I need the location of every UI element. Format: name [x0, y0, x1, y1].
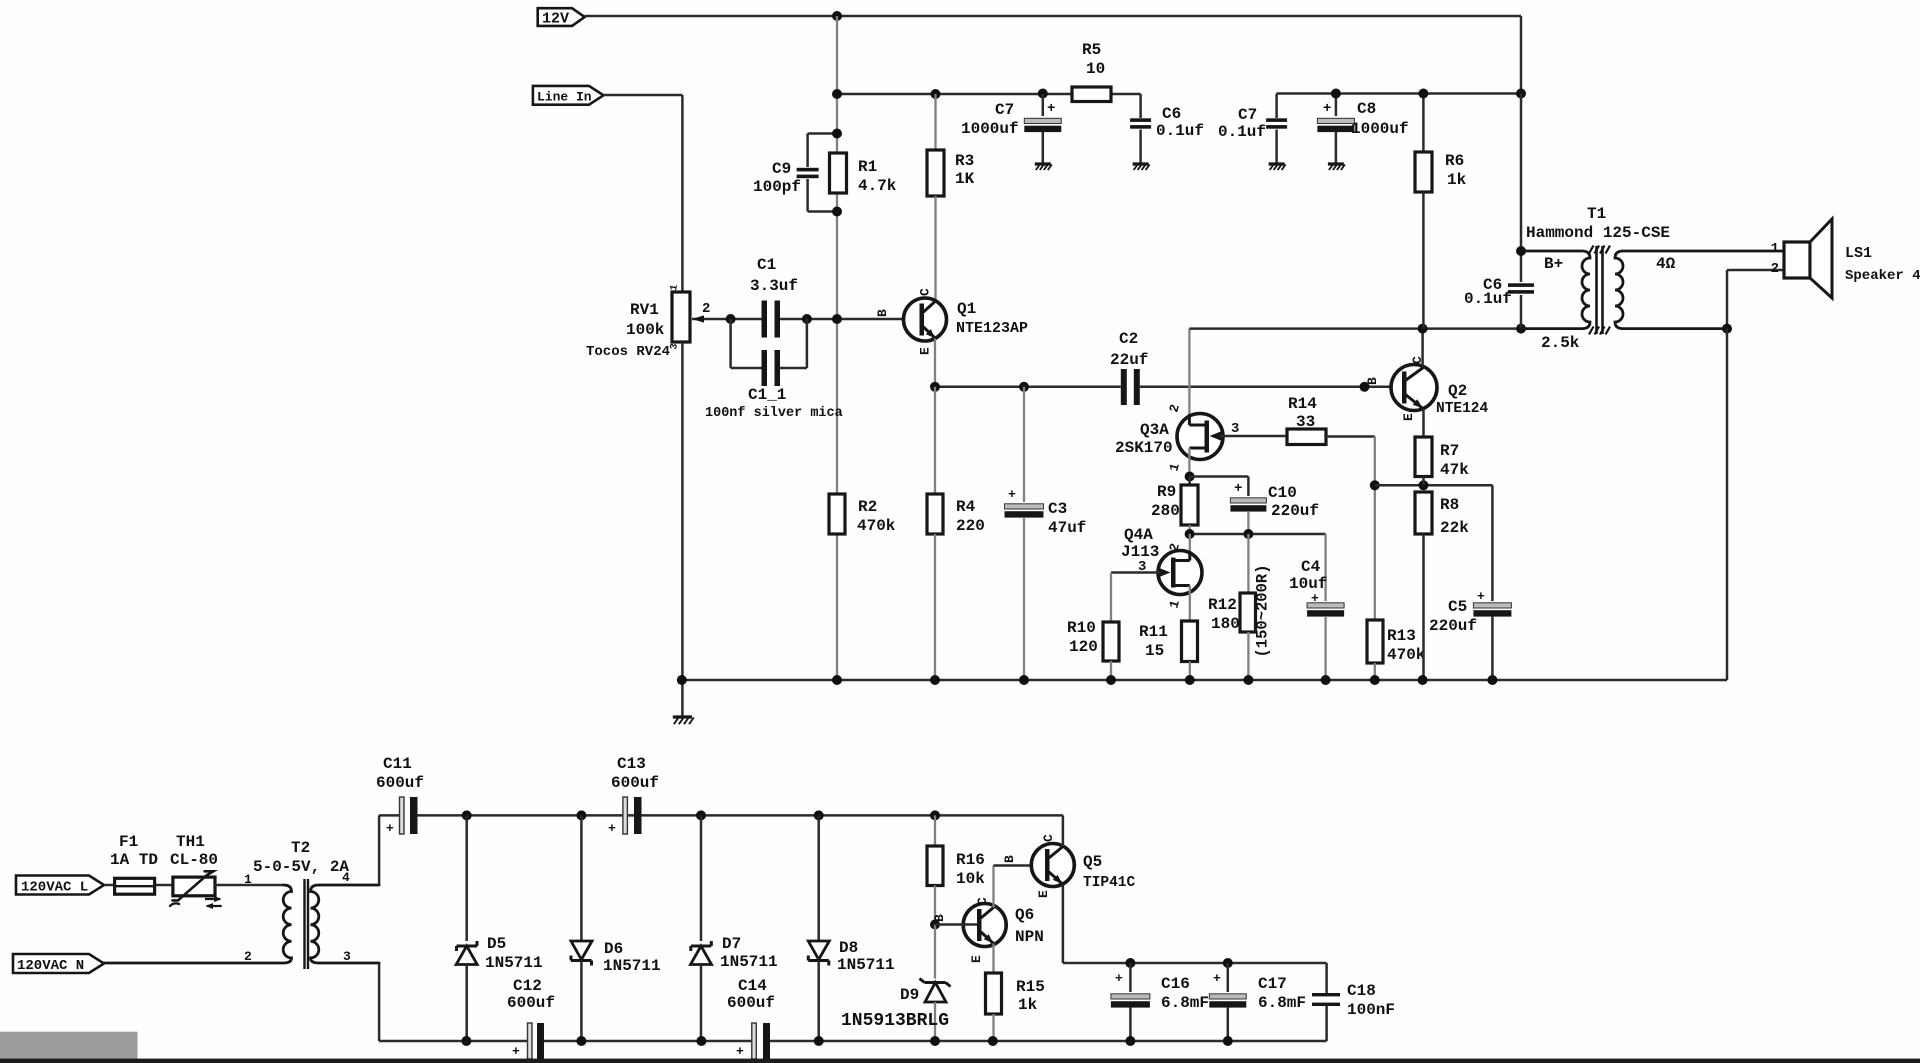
- svg-text:R6: R6: [1445, 152, 1464, 170]
- wire RV1 to ground rail: [681, 342, 684, 716]
- svg-text:4Ω: 4Ω: [1656, 255, 1676, 273]
- node emitter/R4: [930, 382, 940, 392]
- node R3 top junction: [931, 89, 941, 99]
- svg-text:100nF: 100nF: [1347, 1001, 1395, 1019]
- resistor R9 280: [1188, 477, 1191, 486]
- node rail R13: [1370, 675, 1380, 685]
- transistor Q6 NPN: [963, 904, 1006, 947]
- node C9 top: [832, 129, 842, 139]
- svg-text:1: 1: [1771, 241, 1779, 257]
- svg-text:E: E: [1401, 413, 1416, 421]
- capacitor C13 600uf: [623, 797, 628, 834]
- node D9 bottom: [930, 1036, 940, 1046]
- resistor R15 1k: [992, 944, 994, 974]
- svg-text:+: +: [608, 821, 616, 836]
- svg-text:1k: 1k: [1447, 171, 1467, 189]
- node C9 bottom: [832, 207, 842, 217]
- svg-text:D7: D7: [722, 935, 741, 953]
- svg-text:C1: C1: [757, 256, 776, 274]
- svg-text:R4: R4: [956, 498, 976, 516]
- node Q3A source: [1185, 472, 1195, 482]
- svg-text:D6: D6: [604, 940, 623, 958]
- wire right drop to ground rail: [1726, 329, 1729, 680]
- svg-text:12V: 12V: [542, 11, 569, 28]
- node bias bus junction: [1370, 480, 1380, 490]
- node C7 top junction: [1038, 89, 1048, 99]
- svg-text:F1: F1: [119, 833, 138, 851]
- svg-text:C4: C4: [1301, 558, 1321, 576]
- svg-text:+: +: [736, 1044, 744, 1059]
- transformer T1 core: [1595, 246, 1598, 334]
- svg-text:100pf: 100pf: [753, 178, 801, 196]
- capacitor C14 600uf: [752, 1023, 757, 1059]
- svg-text:Q3A: Q3A: [1140, 421, 1169, 439]
- svg-text:+: +: [1115, 971, 1123, 986]
- svg-text:R13: R13: [1387, 627, 1416, 645]
- node rail C5: [1487, 675, 1497, 685]
- capacitor C6 0.1uf (left): [1139, 94, 1142, 118]
- svg-text:1N5711: 1N5711: [485, 954, 543, 972]
- svg-text:C13: C13: [617, 755, 646, 773]
- svg-text:J113: J113: [1121, 543, 1159, 561]
- node D5 top: [462, 810, 472, 820]
- svg-text:1000uf: 1000uf: [1351, 120, 1409, 138]
- svg-text:T2: T2: [291, 839, 310, 857]
- wire Q5 emitter output: [1062, 885, 1065, 964]
- svg-text:C1_1: C1_1: [748, 386, 786, 404]
- resistor R2 470k: [829, 494, 845, 534]
- svg-text:1N5711: 1N5711: [837, 956, 895, 974]
- svg-text:Hammond 125-CSE: Hammond 125-CSE: [1526, 224, 1670, 242]
- svg-text:+: +: [1477, 589, 1485, 604]
- node C1 right: [802, 314, 812, 324]
- resistor R13 470k: [1367, 620, 1383, 663]
- svg-text:15: 15: [1145, 642, 1164, 660]
- node rail R10: [1106, 675, 1116, 685]
- resistor R6 1k: [1422, 94, 1425, 153]
- svg-text:4: 4: [342, 870, 350, 885]
- svg-text:C18: C18: [1347, 982, 1376, 1000]
- svg-text:470k: 470k: [1387, 646, 1426, 664]
- svg-text:NPN: NPN: [1015, 928, 1044, 946]
- svg-text:10uf: 10uf: [1289, 575, 1327, 593]
- node C16 bottom: [1125, 1036, 1135, 1046]
- svg-text:R10: R10: [1067, 619, 1096, 637]
- svg-text:+: +: [1213, 971, 1221, 986]
- wire rail y=94 left segment: [837, 93, 1072, 96]
- capacitor C8 1000uf: [1335, 94, 1338, 117]
- capacitor C7 0.1uf (second): [1275, 94, 1278, 119]
- capacitor C6 0.1uf (output): [1508, 283, 1534, 287]
- resistor R4 220: [934, 387, 936, 494]
- node D7 bottom: [696, 1036, 706, 1046]
- transformer T2 core: [303, 879, 305, 969]
- svg-text:B: B: [875, 309, 890, 317]
- transistor Q1 NTE123AP: [904, 298, 947, 341]
- svg-text:C17: C17: [1258, 975, 1287, 993]
- node D7 top: [696, 810, 706, 820]
- diode D8 1N5711: [817, 815, 820, 941]
- svg-text:C: C: [1041, 834, 1056, 842]
- svg-text:R8: R8: [1440, 496, 1459, 514]
- wire feedback rail y=329: [1189, 327, 1521, 330]
- wire T2 pin4 riser: [378, 815, 381, 885]
- transformer T2 primary winding: [104, 885, 292, 963]
- svg-text:+: +: [1047, 101, 1055, 117]
- svg-text:B: B: [932, 914, 947, 922]
- svg-text:5-0-5V, 2A: 5-0-5V, 2A: [253, 858, 349, 876]
- svg-text:Q6: Q6: [1015, 906, 1034, 924]
- zener diode D9 1N5913BRLG: [934, 925, 936, 979]
- svg-text:47uf: 47uf: [1048, 519, 1086, 537]
- svg-text:B: B: [1002, 855, 1017, 863]
- node C17 top: [1223, 958, 1233, 968]
- capacitor C7 1000uf: [1042, 94, 1045, 116]
- capacitor C5 220uf: [1491, 485, 1494, 601]
- svg-text:600uf: 600uf: [376, 774, 424, 792]
- ground under C6: [1133, 162, 1149, 165]
- flag 120VAC L: [16, 876, 104, 895]
- node D5 bottom: [461, 1036, 471, 1046]
- svg-text:120VAC L: 120VAC L: [21, 880, 88, 896]
- svg-text:D5: D5: [487, 935, 506, 953]
- svg-text:C: C: [1410, 356, 1425, 364]
- svg-text:TH1: TH1: [176, 833, 205, 851]
- svg-text:R5: R5: [1082, 41, 1101, 59]
- wire vertical bus x=837: [836, 16, 838, 680]
- svg-text:22uf: 22uf: [1110, 351, 1148, 369]
- node D6 bottom: [576, 1036, 586, 1046]
- resistor R1 4.7k: [830, 153, 847, 193]
- wire ground rail y=680: [682, 679, 1493, 682]
- svg-text:E: E: [969, 955, 984, 963]
- node C16 top: [1125, 958, 1135, 968]
- node C10/R12: [1243, 529, 1253, 539]
- svg-text:Q2: Q2: [1448, 382, 1467, 400]
- power flag 12V: [538, 8, 585, 26]
- capacitor C1 3.3uf: [762, 301, 768, 338]
- node D6 top: [576, 810, 586, 820]
- wire PSU bottom rail: [379, 1040, 527, 1043]
- svg-text:B+: B+: [1544, 255, 1563, 273]
- svg-text:2SK170: 2SK170: [1115, 439, 1173, 457]
- svg-text:3: 3: [1138, 559, 1146, 575]
- node base/bus crossing: [832, 314, 842, 324]
- svg-text:D8: D8: [839, 939, 858, 957]
- svg-text:1: 1: [244, 872, 252, 887]
- node rail corner: [1516, 89, 1526, 99]
- svg-text:R14: R14: [1288, 395, 1317, 413]
- node R15 bottom: [988, 1036, 998, 1046]
- resistor R11 15: [1182, 621, 1198, 662]
- svg-text:C7: C7: [995, 101, 1014, 119]
- svg-text:10k: 10k: [956, 870, 985, 888]
- node speaker return junction: [1722, 324, 1732, 334]
- svg-text:R2: R2: [858, 498, 877, 516]
- node B+ junction: [1516, 246, 1526, 256]
- flag 120VAC N: [13, 954, 104, 973]
- transistor Q5 TIP41C: [1031, 844, 1074, 887]
- svg-text:3: 3: [1231, 421, 1239, 437]
- svg-text:C: C: [918, 288, 933, 296]
- node C1 left: [726, 314, 736, 324]
- svg-text:CL-80: CL-80: [170, 851, 218, 869]
- capacitor C11 600uf: [400, 797, 405, 834]
- fuse F1 1A TD: [104, 884, 173, 887]
- svg-text:+: +: [1311, 591, 1319, 606]
- svg-text:47k: 47k: [1440, 461, 1469, 479]
- transformer T1 secondary winding: [1615, 251, 1784, 329]
- svg-text:C7: C7: [1238, 106, 1257, 124]
- node R7/R8 junction: [1419, 480, 1429, 490]
- svg-text:T1: T1: [1587, 205, 1606, 223]
- transformer T2 secondary winding: [311, 885, 380, 963]
- svg-text:+: +: [512, 1044, 520, 1059]
- svg-text:TIP41C: TIP41C: [1083, 875, 1136, 891]
- capacitor C16 6.8mF: [1129, 963, 1132, 992]
- svg-text:Tocos RV24: Tocos RV24: [586, 344, 670, 360]
- svg-text:C9: C9: [772, 160, 791, 178]
- svg-text:10: 10: [1086, 60, 1105, 78]
- svg-text:220uf: 220uf: [1271, 502, 1319, 520]
- capacitor C2 22uf: [1121, 369, 1127, 405]
- svg-text:100k: 100k: [626, 321, 665, 339]
- svg-text:C16: C16: [1161, 975, 1190, 993]
- capacitor C10 220uf: [1190, 475, 1249, 478]
- svg-text:NTE124: NTE124: [1436, 401, 1489, 417]
- flag Line In: [533, 86, 604, 105]
- wire 12V rail drop right: [1520, 16, 1523, 94]
- svg-text:E: E: [1036, 890, 1051, 898]
- thermistor TH1 CL-80: [173, 877, 215, 896]
- svg-text:Line In: Line In: [537, 90, 592, 105]
- resistor R16 10k: [934, 815, 936, 846]
- svg-text:1N5711: 1N5711: [603, 957, 661, 975]
- svg-text:1N5711: 1N5711: [720, 953, 778, 971]
- diode D7 1N5711: [700, 815, 703, 941]
- node R9/Q4A drain: [1185, 529, 1195, 539]
- resistor R3 1K: [934, 94, 936, 150]
- node D8 bottom: [814, 1036, 824, 1046]
- svg-text:600uf: 600uf: [611, 774, 659, 792]
- svg-text:220: 220: [956, 517, 985, 535]
- capacitor C9 100pf parallel branch: [808, 132, 837, 135]
- node rail C3: [1019, 675, 1029, 685]
- svg-text:R12: R12: [1208, 596, 1237, 614]
- capacitor C12 600uf: [528, 1023, 533, 1059]
- svg-text:4.7k: 4.7k: [858, 177, 897, 195]
- node rail/bus junction: [832, 89, 842, 99]
- wire Q1 emitter node: [934, 339, 936, 387]
- svg-text:R15: R15: [1016, 978, 1045, 996]
- svg-text:280: 280: [1151, 502, 1180, 520]
- svg-text:1k: 1k: [1018, 996, 1038, 1014]
- resistor R8 22k: [1415, 492, 1432, 534]
- node D8 top: [814, 810, 824, 820]
- node Q2 collector/R6: [1418, 324, 1428, 334]
- node Q6 base junction: [930, 920, 940, 930]
- svg-text:120: 120: [1069, 638, 1098, 656]
- svg-text:0.1uf: 0.1uf: [1156, 122, 1204, 140]
- svg-text:C2: C2: [1119, 330, 1138, 348]
- potentiometer RV1 100k: [672, 292, 690, 342]
- wire 12V rail: [585, 15, 1521, 18]
- node C17 bottom: [1223, 1036, 1233, 1046]
- svg-text:1K: 1K: [955, 170, 975, 188]
- svg-text:C10: C10: [1268, 484, 1297, 502]
- wire node y=534: [1190, 533, 1326, 536]
- svg-text:1N5913BRLG: 1N5913BRLG: [841, 1011, 949, 1031]
- node R16 top: [930, 810, 940, 820]
- svg-text:(150~200R): (150~200R): [1254, 564, 1272, 657]
- ground under C8: [1328, 162, 1344, 165]
- svg-text:180: 180: [1211, 615, 1240, 633]
- svg-text:220uf: 220uf: [1429, 617, 1477, 635]
- resistor R14 33: [1287, 429, 1326, 445]
- wire speaker return: [1727, 269, 1784, 272]
- node primary bottom: [1516, 324, 1526, 334]
- svg-text:33: 33: [1296, 413, 1315, 431]
- node Q2 base wire: [1360, 382, 1370, 392]
- svg-text:C11: C11: [383, 755, 412, 773]
- speaker LS1: [1784, 242, 1810, 278]
- svg-text:R3: R3: [955, 152, 974, 170]
- ground main: [673, 715, 692, 718]
- wire B+ vertical x=1521: [1520, 94, 1523, 283]
- JFET Q4A J113: [1189, 534, 1191, 561]
- wire R14 to R13 bus: [1326, 435, 1375, 438]
- wire T2 pin3 drop: [378, 963, 381, 1041]
- wire base node: [731, 318, 762, 321]
- node rail C4: [1321, 675, 1331, 685]
- node rail R4: [930, 675, 940, 685]
- ground under C7 second: [1269, 162, 1285, 165]
- svg-text:1A TD: 1A TD: [110, 851, 158, 869]
- node C3 top: [1019, 382, 1029, 392]
- svg-text:C3: C3: [1048, 500, 1067, 518]
- svg-text:Speaker 4Ω: Speaker 4Ω: [1845, 268, 1920, 284]
- node R6 top: [1418, 89, 1428, 99]
- svg-text:22k: 22k: [1440, 519, 1469, 537]
- ground under C7: [1035, 162, 1051, 165]
- svg-text:3.3uf: 3.3uf: [750, 277, 798, 295]
- svg-text:100nf silver mica: 100nf silver mica: [705, 406, 843, 421]
- svg-text:C: C: [975, 897, 990, 905]
- capacitor C3 47uf: [1023, 387, 1025, 502]
- svg-text:RV1: RV1: [630, 301, 659, 319]
- node 12V/R1 junction: [832, 11, 842, 21]
- svg-text:6.8mF: 6.8mF: [1258, 994, 1306, 1012]
- resistor R12 180: [1247, 534, 1249, 593]
- capacitor C17 6.8mF: [1227, 963, 1230, 992]
- wire rail y=94 right segment: [1277, 92, 1521, 95]
- svg-text:120VAC N: 120VAC N: [17, 958, 84, 974]
- svg-text:LS1: LS1: [1845, 245, 1872, 262]
- svg-text:C6: C6: [1162, 105, 1181, 123]
- node rail R11: [1185, 675, 1195, 685]
- svg-text:+: +: [386, 821, 394, 836]
- svg-text:600uf: 600uf: [507, 994, 555, 1012]
- svg-text:C8: C8: [1357, 100, 1376, 118]
- svg-text:0.1uf: 0.1uf: [1218, 123, 1266, 141]
- svg-text:+: +: [1234, 481, 1242, 497]
- svg-text:+: +: [1323, 101, 1331, 117]
- resistor R7 47k: [1422, 409, 1425, 437]
- JFET Q3A 2SK170: [1188, 329, 1190, 424]
- svg-text:R16: R16: [956, 851, 985, 869]
- capacitor C1_1 100nf silver mica parallel branch: [729, 319, 732, 368]
- svg-text:R9: R9: [1157, 483, 1176, 501]
- wire TH1 to T2: [215, 884, 284, 887]
- svg-text:Q1: Q1: [957, 300, 976, 318]
- svg-text:C12: C12: [513, 977, 542, 995]
- svg-text:2: 2: [1771, 261, 1779, 277]
- wire PSU top rail: [379, 814, 399, 817]
- resistor R10 120: [1103, 622, 1119, 661]
- capacitor C4 10uf: [1324, 534, 1326, 601]
- node rail R8: [1418, 675, 1428, 685]
- node rail R2: [832, 675, 842, 685]
- resistor R5: [1072, 87, 1111, 102]
- svg-text:1000uf: 1000uf: [961, 120, 1019, 138]
- svg-text:600uf: 600uf: [727, 994, 775, 1012]
- svg-text:6.8mF: 6.8mF: [1161, 994, 1209, 1012]
- node C8 top: [1331, 89, 1341, 99]
- svg-text:B: B: [1365, 377, 1380, 385]
- svg-text:2: 2: [702, 301, 710, 317]
- svg-text:Q4A: Q4A: [1124, 526, 1153, 544]
- svg-text:R7: R7: [1440, 442, 1459, 460]
- svg-text:R11: R11: [1139, 623, 1168, 641]
- svg-text:C5: C5: [1448, 598, 1467, 616]
- svg-text:470k: 470k: [857, 517, 896, 535]
- svg-text:NTE123AP: NTE123AP: [956, 320, 1028, 337]
- svg-text:D9: D9: [900, 986, 919, 1004]
- svg-text:C14: C14: [738, 977, 767, 995]
- diode D6 1N5711: [580, 815, 583, 941]
- wire Line In to RV1: [604, 94, 683, 97]
- svg-text:+: +: [1008, 487, 1016, 502]
- node rail RV1: [677, 675, 687, 685]
- diode D5 1N5711: [465, 815, 468, 941]
- capacitor C18 100nF: [1325, 963, 1328, 993]
- wire bias rail y=485: [1375, 484, 1493, 487]
- svg-text:Q5: Q5: [1083, 853, 1102, 871]
- svg-text:E: E: [918, 347, 933, 355]
- node rail R12: [1243, 675, 1253, 685]
- svg-text:R1: R1: [858, 158, 877, 176]
- wire C2 to Q2 base: [1140, 386, 1402, 389]
- svg-text:2.5k: 2.5k: [1541, 334, 1580, 352]
- svg-text:0.1uf: 0.1uf: [1464, 290, 1512, 308]
- transistor Q2 NTE124: [1391, 365, 1437, 411]
